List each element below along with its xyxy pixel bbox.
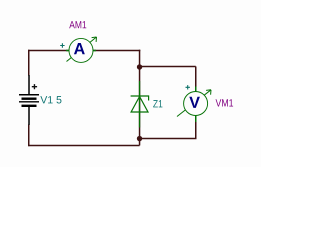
zener diode Z1 cathode bar with bend — [131, 96, 149, 101]
battery V1 plate2 thick — [22, 97, 37, 99]
ammeter AM1 green lead — [66, 49, 96, 51]
wire bottom right from lower junction to voltmeter — [140, 137, 197, 139]
wire top right to voltmeter — [140, 65, 196, 67]
label V1 5 — [40, 96, 61, 103]
voltmeter letter V — [189, 97, 200, 108]
node junction dot bottom — [137, 136, 142, 141]
wire left vertical lower (battery branch) — [28, 125, 30, 147]
wire top from battery to right branch — [28, 49, 140, 51]
ammeter plus — [60, 43, 64, 47]
battery V1 lead top — [28, 75, 30, 94]
voltmeter VM1 green lead — [195, 87, 197, 123]
voltmeter plus — [186, 85, 190, 89]
ammeter AM1 circle — [69, 38, 93, 62]
battery V1 plate3 thin — [19, 101, 39, 103]
wire left vertical upper (battery branch) — [28, 50, 30, 76]
battery plus sign — [32, 84, 37, 89]
label Z1 — [153, 100, 162, 107]
ammeter letter A — [74, 43, 85, 54]
battery V1 lead bottom — [28, 106, 30, 125]
zener diode Z1 lead (continuous) — [139, 81, 141, 128]
voltmeter VM1 arrow — [177, 90, 211, 117]
wire bottom left — [28, 144, 139, 146]
battery V1 plate1 thin — [19, 94, 39, 96]
wire voltmeter vertical — [195, 66, 197, 138]
zener diode Z1 triangle — [131, 97, 148, 113]
label VM1 — [216, 99, 234, 106]
voltmeter VM1 circle — [184, 92, 208, 116]
wire zener vertical branch — [139, 50, 141, 146]
battery V1 plate4 thick — [22, 105, 37, 107]
ammeter AM1 arrow — [67, 37, 97, 62]
node junction dot top (zener/voltmeter) — [137, 64, 142, 69]
label AM1 — [69, 21, 86, 28]
